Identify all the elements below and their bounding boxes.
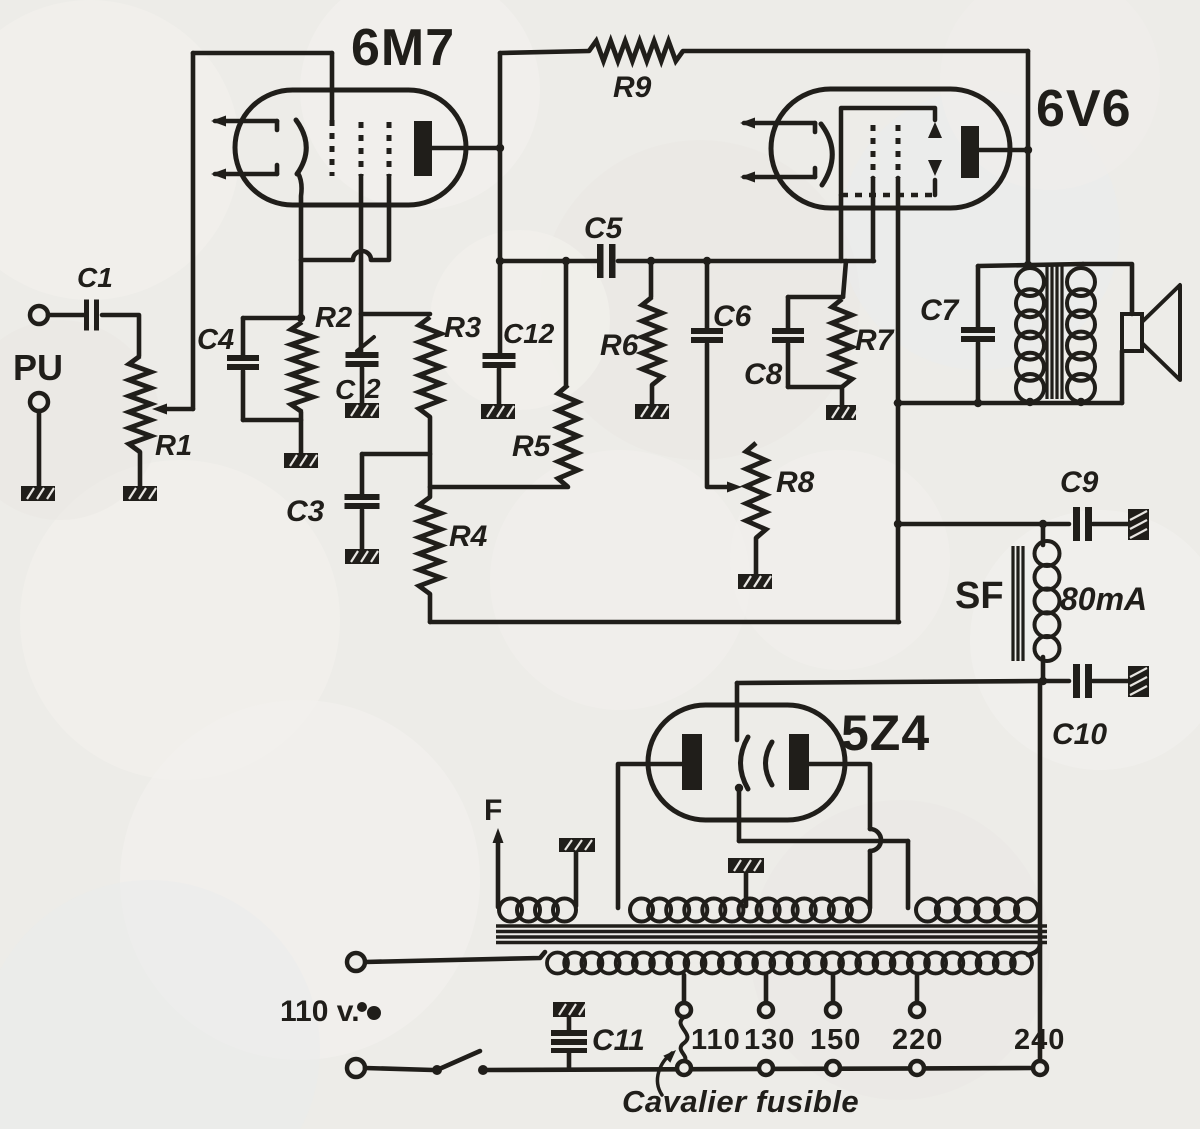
wire grid2 6M7 down <box>359 176 364 352</box>
fuse link cavalier <box>681 1017 688 1061</box>
wire grid cap 6M7 <box>330 53 335 120</box>
svg-text:R6: R6 <box>600 329 639 362</box>
svg-text:C8: C8 <box>744 358 783 391</box>
wire C5 to 6V6 grid <box>618 259 874 264</box>
capacitor C6 <box>705 261 710 328</box>
ground R7 <box>826 405 856 420</box>
resistor R5 <box>558 385 578 487</box>
tap 240 terminal <box>1033 1061 1047 1075</box>
cathode 6M7 <box>296 120 306 174</box>
svg-text:R1: R1 <box>155 430 192 462</box>
wire C10 row <box>1043 679 1069 684</box>
wire R7 ground <box>840 387 845 405</box>
wire bottom bus transformer <box>896 401 1122 406</box>
wire filament to heater winding <box>739 839 908 844</box>
resistor R3 <box>419 317 441 417</box>
transformer T2 rectifier heater winding <box>916 899 939 922</box>
svg-text:C11: C11 <box>592 1024 645 1057</box>
ground PU <box>21 486 55 501</box>
svg-text:R8: R8 <box>776 466 815 499</box>
svg-text:C7: C7 <box>920 294 960 327</box>
anode 6V6 <box>961 126 979 178</box>
svg-text:C: C <box>335 374 356 405</box>
wire F winding lead <box>496 840 501 907</box>
potentiometer R1 <box>129 356 151 452</box>
wire grid2 to R3 <box>361 312 430 317</box>
anode left 5Z4 <box>682 734 702 790</box>
capacitor C4 <box>241 318 246 355</box>
resistor R4 <box>419 497 441 594</box>
svg-text:5Z4: 5Z4 <box>841 705 930 761</box>
wire anode 6M7 <box>432 146 500 151</box>
ground C12 <box>481 404 515 419</box>
wire R4 to bus <box>428 594 433 622</box>
resistor R2 <box>291 322 313 412</box>
ground R1 <box>123 486 157 501</box>
potentiometer R8 <box>746 443 766 538</box>
wire top-left rail <box>193 51 332 56</box>
wire R1 to ground <box>138 452 143 486</box>
resistor R6 <box>649 261 654 297</box>
wire PU2 to ground <box>37 411 42 486</box>
wire secondary top to speaker <box>1083 264 1132 314</box>
tap 110 bottom terminal <box>677 1061 691 1075</box>
heater 6M7 <box>215 119 277 124</box>
wire 5Z4 filament bottom <box>737 788 742 841</box>
tap 150 terminal <box>826 1003 840 1017</box>
wire R9 to 6V6 anode corner <box>683 49 1028 54</box>
wire C9 to chassis <box>1093 522 1130 527</box>
wire anode junction vertical <box>498 53 503 353</box>
anode 6M7 <box>414 121 432 176</box>
chassis C10 <box>1128 666 1149 697</box>
svg-text:220: 220 <box>892 1024 943 1056</box>
wire B+ to heater winding and 240 tap <box>1038 681 1043 1061</box>
svg-text:R7: R7 <box>855 324 895 357</box>
wire R8 ground <box>754 538 759 574</box>
tap 130 lead <box>764 975 769 1003</box>
wire C1 to R1 top <box>102 315 139 356</box>
capacitor C5 <box>597 244 604 278</box>
tap 130 bottom terminal <box>759 1061 773 1075</box>
wire primary top <box>978 264 1083 266</box>
heater 6V6 <box>744 121 815 126</box>
wire screen drop to bus <box>896 403 901 524</box>
svg-text:R9: R9 <box>613 71 652 104</box>
wire B+ vertical 6V6 <box>1026 51 1031 266</box>
svg-text:C6: C6 <box>713 300 752 333</box>
svg-text:C10: C10 <box>1052 718 1107 751</box>
wire to switch <box>365 1068 433 1070</box>
wire C8 top link <box>788 295 843 300</box>
ground R6 <box>635 404 669 419</box>
tap 220 lead <box>915 975 920 1003</box>
svg-text:110 v.: 110 v. <box>280 995 360 1028</box>
transformer T2 core <box>496 924 1047 927</box>
wire 6V6 grid1 down <box>871 178 876 261</box>
capacitor C12 <box>483 353 516 359</box>
wire F winding chassis lead <box>574 852 579 906</box>
cathode 6V6 <box>821 124 832 185</box>
svg-text:C5: C5 <box>584 212 624 245</box>
grid1 6V6 <box>871 125 876 178</box>
wiper arrow R1 <box>160 407 193 412</box>
chassis C11 <box>553 1002 585 1017</box>
capacitor C7 <box>976 266 981 327</box>
wire B+ to 5Z4 <box>737 681 1043 683</box>
capacitor C1 <box>84 300 89 331</box>
wire R6 ground <box>650 385 655 404</box>
svg-text:C9: C9 <box>1060 466 1099 499</box>
wire rail to R9 <box>500 51 589 53</box>
terminal mains bottom <box>347 1059 365 1077</box>
svg-text:R4: R4 <box>449 520 488 553</box>
svg-text:R3: R3 <box>444 312 481 344</box>
svg-text:240: 240 <box>1014 1024 1065 1056</box>
wire grid-feed vertical <box>191 53 196 409</box>
wire C8 bottom link <box>788 385 842 390</box>
transformer T2 primary winding <box>547 953 568 974</box>
terminal PU ground side <box>30 393 48 411</box>
tap 110 lead <box>682 975 687 1003</box>
wire C4 bottom to R2 <box>243 418 301 423</box>
transformer T2 HV winding <box>630 899 653 922</box>
tap 150 lead <box>831 975 836 1003</box>
svg-text:6M7: 6M7 <box>351 19 455 77</box>
svg-text:SF: SF <box>955 575 1004 617</box>
transformer T1 secondary <box>1067 268 1095 296</box>
resistor R9 <box>589 41 683 61</box>
svg-text:80mA: 80mA <box>1060 581 1147 617</box>
ground R8 <box>738 574 772 589</box>
wire R5 top <box>564 261 569 385</box>
wire B+ bus <box>430 620 899 625</box>
wire B+ down <box>896 524 901 622</box>
speaker <box>1122 314 1142 351</box>
transformer T2 heater winding F <box>499 899 522 922</box>
tube 6V6 envelope <box>771 89 1010 208</box>
tap 130 terminal <box>759 1003 773 1017</box>
ground C3 <box>345 549 379 564</box>
svg-text:C12: C12 <box>503 318 555 349</box>
svg-text:110: 110 <box>691 1024 741 1056</box>
transformer T1 core <box>1045 266 1048 399</box>
svg-text:C3: C3 <box>286 495 325 528</box>
capacitor C10 <box>1073 664 1080 698</box>
capacitor C8 <box>786 297 791 328</box>
beam electrode 6V6 <box>841 108 935 195</box>
wire C9 row <box>898 522 1069 527</box>
svg-text:R2: R2 <box>315 302 352 334</box>
tap 150 bottom terminal <box>826 1061 840 1075</box>
capacitor C3 <box>360 454 365 494</box>
terminal mains top <box>347 953 365 971</box>
wire plate to C5 <box>500 259 597 264</box>
grid2 6M7 <box>359 122 364 176</box>
resistor R7 <box>832 299 852 387</box>
wire grid3 to cathode with hop <box>301 176 389 260</box>
chassis C9 <box>1128 509 1149 540</box>
filament 5Z4 <box>741 737 749 789</box>
wire C6 down to R8 wiper <box>707 344 734 487</box>
capacitor C2 <box>346 352 379 358</box>
wire R2 to ground <box>299 412 304 453</box>
tube 5Z4 envelope <box>648 705 845 820</box>
chassis HV center tap <box>728 858 764 873</box>
ground C2 <box>345 403 379 418</box>
wire 6V6 grid down <box>839 195 844 261</box>
wire C4-R2 top <box>243 316 302 321</box>
choke SF core <box>1011 546 1014 661</box>
switch <box>432 1065 442 1075</box>
grid3 6M7 <box>387 122 392 176</box>
svg-text:6V6: 6V6 <box>1036 80 1132 138</box>
wire R5 bottom link <box>430 485 568 490</box>
capacitor C11 <box>567 1053 572 1069</box>
svg-text:PU: PU <box>13 347 63 388</box>
grid1 6M7 <box>330 120 335 176</box>
wire cathode 6M7 down <box>298 173 302 318</box>
wire PU to C1 <box>48 313 85 318</box>
tap 220 terminal <box>910 1003 924 1017</box>
svg-text:150: 150 <box>810 1024 861 1056</box>
wire left plate to HV <box>618 764 682 908</box>
wire primary right lead <box>1028 944 1040 955</box>
wire to C3 <box>362 452 430 457</box>
ground R2 <box>284 453 318 468</box>
wire C10 to chassis <box>1093 679 1130 684</box>
wire HV center tap <box>744 873 749 906</box>
wire primary left lead <box>365 952 545 962</box>
svg-text:C1: C1 <box>77 262 113 293</box>
svg-text:F: F <box>484 794 502 827</box>
tap 110 terminal <box>677 1003 691 1017</box>
wire anode 6V6 <box>979 148 1028 153</box>
svg-text:2: 2 <box>364 373 381 404</box>
tap 220 bottom terminal <box>910 1061 924 1075</box>
svg-text:130: 130 <box>744 1024 795 1056</box>
wire secondary bottom to speaker <box>1120 351 1125 403</box>
wire right plate to HV <box>809 764 870 829</box>
capacitor C9 <box>1073 507 1080 541</box>
wire grid jog <box>843 261 846 297</box>
terminal PU hot <box>30 306 48 324</box>
wire R3 to R4 <box>428 417 433 497</box>
wire switch to taps <box>483 1068 1032 1070</box>
transformer T1 primary <box>1016 268 1044 296</box>
chassis F winding <box>559 838 595 852</box>
grid2 6V6 <box>896 125 901 178</box>
anode right 5Z4 <box>789 734 809 790</box>
wire 5Z4 filament top <box>735 683 740 740</box>
svg-text:R5: R5 <box>512 430 552 463</box>
svg-text:C4: C4 <box>197 324 234 356</box>
choke SF <box>1041 524 1046 545</box>
tube 6M7 envelope <box>235 90 466 205</box>
wire 6V6 screen down <box>896 178 901 403</box>
